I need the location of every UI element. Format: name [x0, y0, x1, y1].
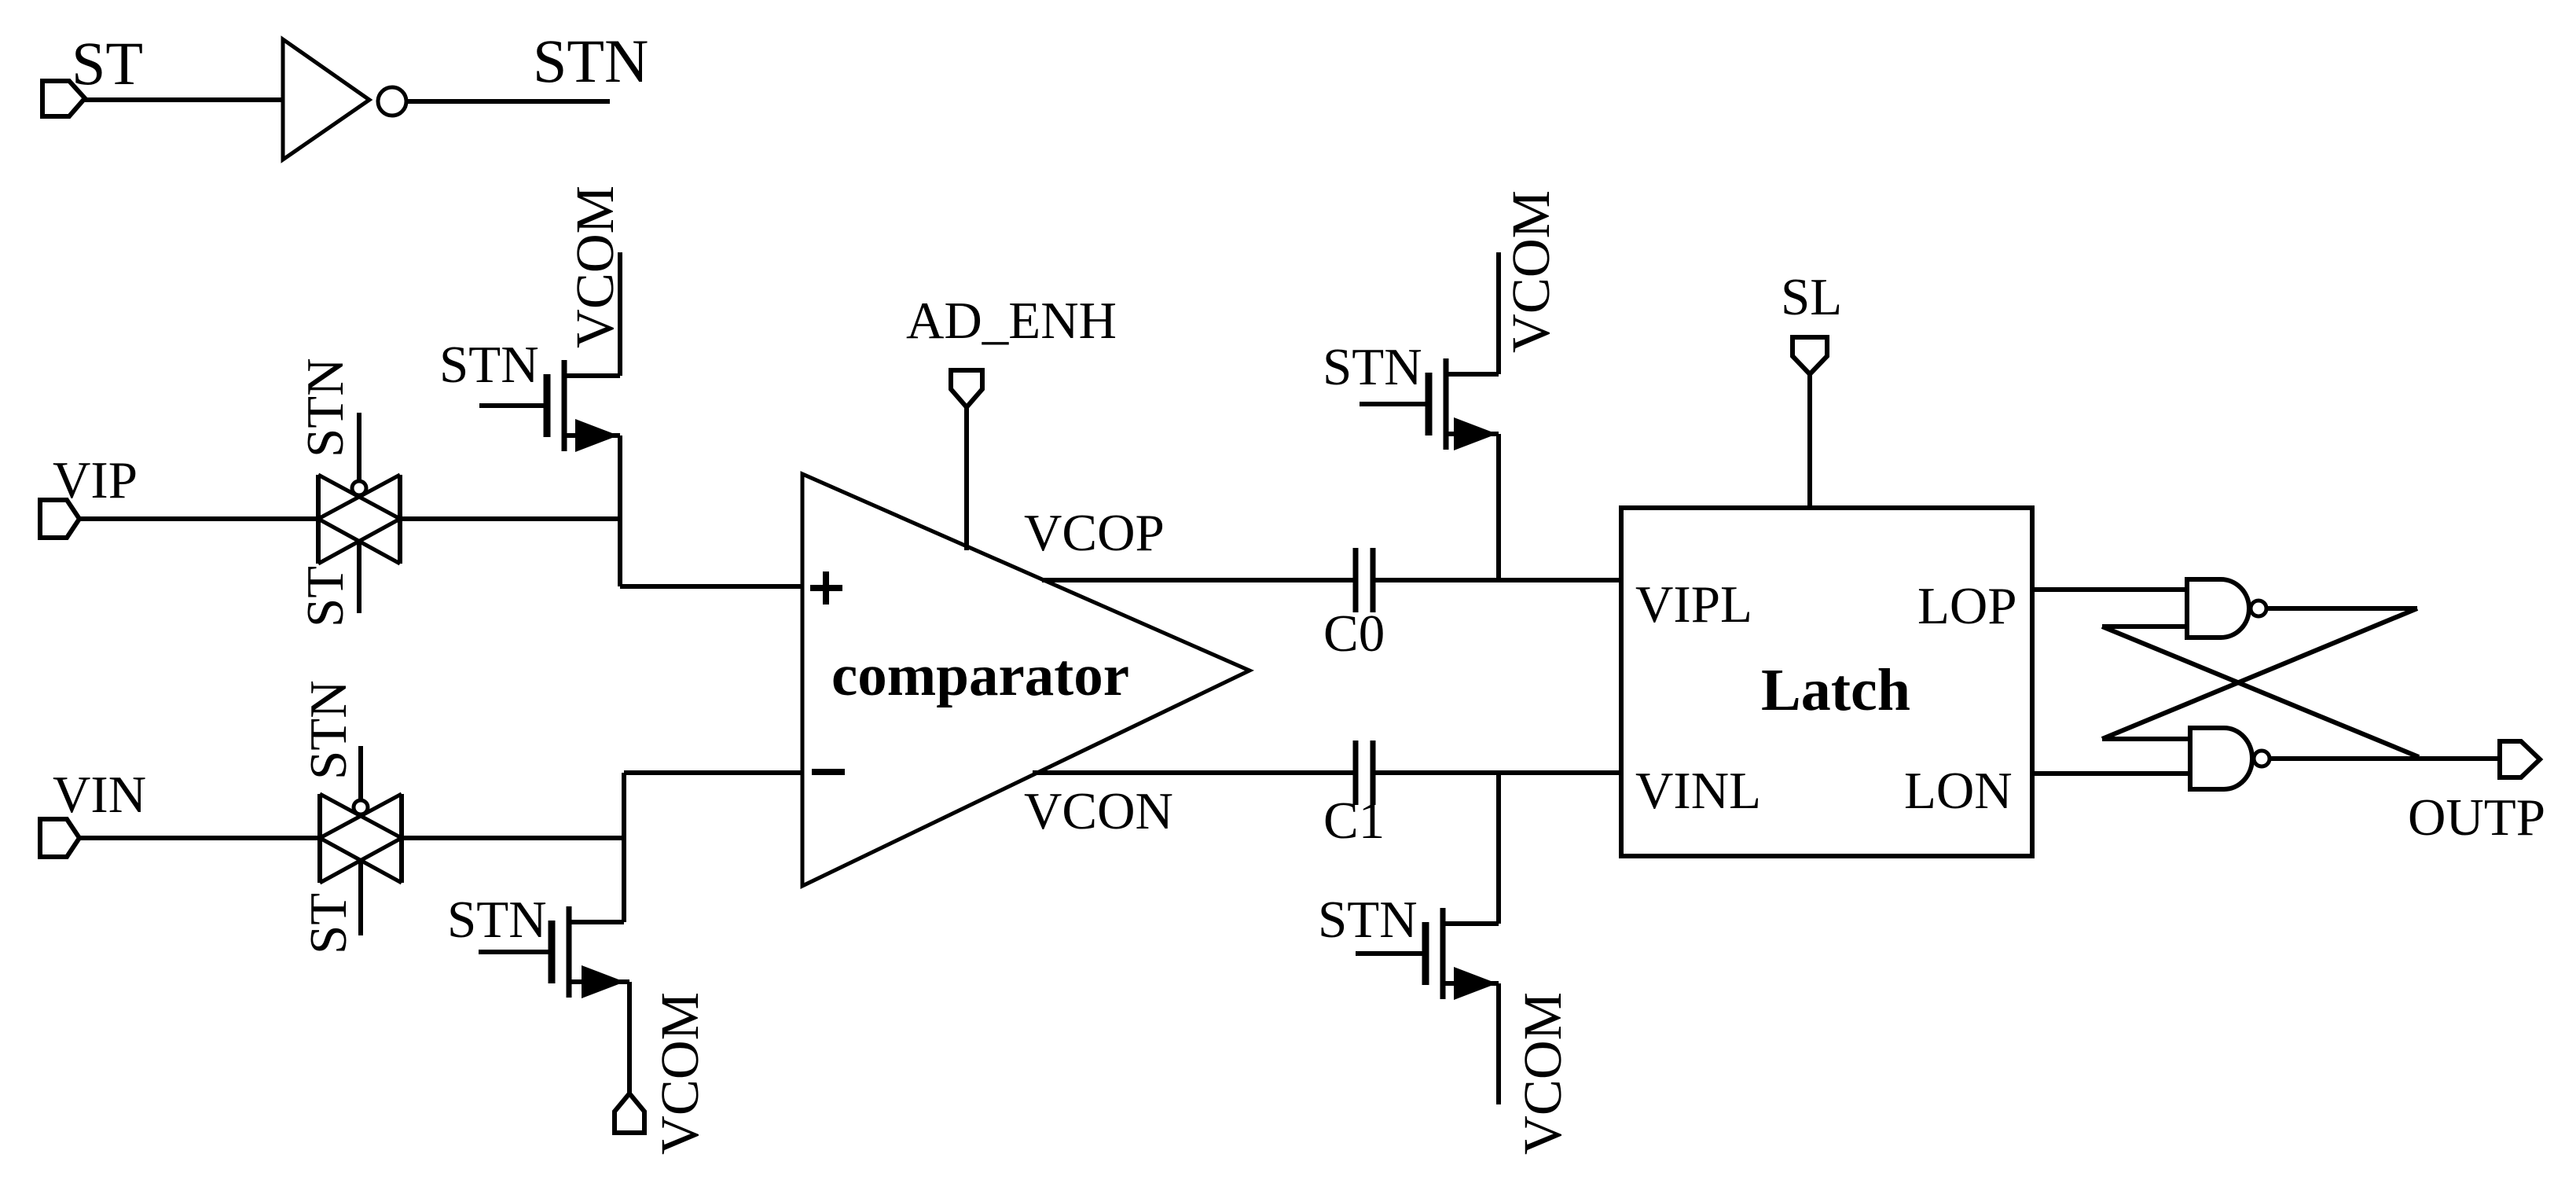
- svg-text:VCOM: VCOM: [1513, 992, 1572, 1155]
- svg-text:ST: ST: [299, 893, 358, 954]
- wire LOP to nand1: [2032, 587, 2187, 592]
- wire M1 drain to VCOM: [618, 252, 622, 376]
- wire inverter to STN: [405, 99, 610, 104]
- wire VIN1 trunk: [622, 773, 626, 922]
- svg-text:VIN: VIN: [53, 766, 146, 824]
- wire C0 to latch VIPL: [1373, 578, 1621, 582]
- wire nand2 output to OUTP: [2270, 756, 2500, 761]
- svg-text:OUTP: OUTP: [2408, 788, 2545, 847]
- wire VIP to TG1: [79, 516, 318, 521]
- svg-text:STN: STN: [1318, 891, 1418, 949]
- wire TG1 gate top: [357, 413, 361, 481]
- inverter U1: [283, 39, 369, 160]
- plus input mark: [810, 571, 842, 605]
- svg-text:STN: STN: [533, 27, 648, 95]
- transmission gate TG2: [320, 794, 402, 883]
- wire TG2 gate bottom: [358, 860, 363, 935]
- wire cross diagonal A: [2102, 608, 2417, 739]
- nand gate G1: [2187, 579, 2249, 638]
- svg-text:LON: LON: [1904, 762, 2013, 820]
- wire TG2 gate top: [358, 746, 363, 800]
- svg-text:VCOM: VCOM: [650, 992, 710, 1155]
- transistor M3: [1360, 358, 1499, 450]
- wire M2 source to VCOM pin: [627, 982, 632, 1093]
- svg-text:VIPL: VIPL: [1635, 575, 1752, 634]
- wire M4 source to VCOM: [1496, 983, 1501, 1104]
- nand gate G2: [2190, 728, 2252, 789]
- wire cross diagonal B: [2102, 627, 2419, 757]
- wire VIN to TG2: [79, 836, 320, 840]
- capacitor C1: [1356, 740, 1373, 805]
- svg-text:ST: ST: [72, 29, 143, 97]
- wire LON to nand2: [2032, 771, 2190, 776]
- wire AD_ENH to comparator: [964, 407, 969, 550]
- svg-text:C1: C1: [1323, 792, 1385, 850]
- svg-text:VCOP: VCOP: [1024, 504, 1165, 562]
- wire to comparator minus input: [624, 770, 802, 775]
- op-amp comparator: [802, 474, 1249, 886]
- wire TG1 gate bottom: [357, 541, 361, 613]
- pin VIN: [40, 819, 79, 857]
- svg-text:LOP: LOP: [1917, 577, 2017, 635]
- transistor M4: [1356, 908, 1499, 1000]
- pin AD_ENH: [951, 370, 982, 407]
- minus input mark: [812, 769, 845, 775]
- pin SL: [1793, 337, 1827, 374]
- wire M1 source down to comparator plus: [618, 435, 622, 586]
- wire M3 source down to C0 net: [1496, 434, 1501, 580]
- wire ST to inverter: [85, 97, 283, 102]
- svg-text:VCOM: VCOM: [1501, 190, 1561, 353]
- latch U2 box: [1621, 508, 2032, 856]
- svg-text:comparator: comparator: [831, 643, 1129, 708]
- pin OUTP: [2500, 741, 2540, 777]
- wire SL to latch: [1807, 374, 1812, 508]
- wire VCON to C1: [1033, 770, 1356, 775]
- svg-text:STN: STN: [439, 336, 539, 394]
- pin VCOM bottom: [615, 1093, 644, 1133]
- wire TG1 to node VIP1: [400, 516, 620, 521]
- transistor M1: [479, 360, 620, 452]
- svg-text:VINL: VINL: [1635, 762, 1761, 820]
- svg-text:SL: SL: [1781, 268, 1842, 326]
- svg-text:C0: C0: [1323, 605, 1385, 663]
- svg-text:VCOM: VCOM: [565, 186, 625, 348]
- svg-text:STN: STN: [1323, 338, 1422, 396]
- wire nand1 output: [2266, 606, 2417, 611]
- wire M4 drain up to C1 net: [1496, 773, 1501, 924]
- svg-text:Latch: Latch: [1761, 657, 1910, 723]
- svg-text:STN: STN: [296, 358, 354, 458]
- wire VCOP to C0: [1042, 578, 1356, 582]
- wire nand2 input stub: [2102, 737, 2190, 741]
- svg-text:VCON: VCON: [1024, 782, 1173, 840]
- wire TG2 to node VIN1: [402, 836, 624, 840]
- svg-text:STN: STN: [447, 891, 547, 949]
- pin ST: [42, 81, 85, 116]
- transistor M2: [479, 906, 629, 998]
- pin VIP: [40, 500, 79, 538]
- wire to comparator plus input: [620, 584, 802, 589]
- wire M3 drain to VCOM: [1496, 252, 1501, 374]
- svg-text:ST: ST: [296, 566, 354, 627]
- wire C1 to latch VINL: [1373, 770, 1621, 775]
- svg-text:STN: STN: [299, 680, 358, 780]
- wire nand1 input stub: [2102, 624, 2187, 629]
- capacitor C0: [1356, 548, 1373, 612]
- svg-text:AD_ENH: AD_ENH: [906, 292, 1117, 350]
- transmission gate TG1: [318, 475, 400, 564]
